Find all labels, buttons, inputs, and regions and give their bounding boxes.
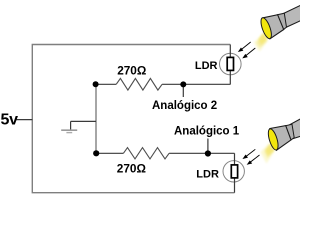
svg-text:LDR: LDR <box>195 60 218 72</box>
svg-text:Analógico 1: Analógico 1 <box>174 126 240 138</box>
svg-text:Analógico 2: Analógico 2 <box>152 100 217 112</box>
svg-text:270Ω: 270Ω <box>117 162 146 176</box>
svg-text:LDR: LDR <box>196 168 219 180</box>
svg-text:270Ω: 270Ω <box>117 64 146 78</box>
svg-text:5v: 5v <box>1 112 19 129</box>
